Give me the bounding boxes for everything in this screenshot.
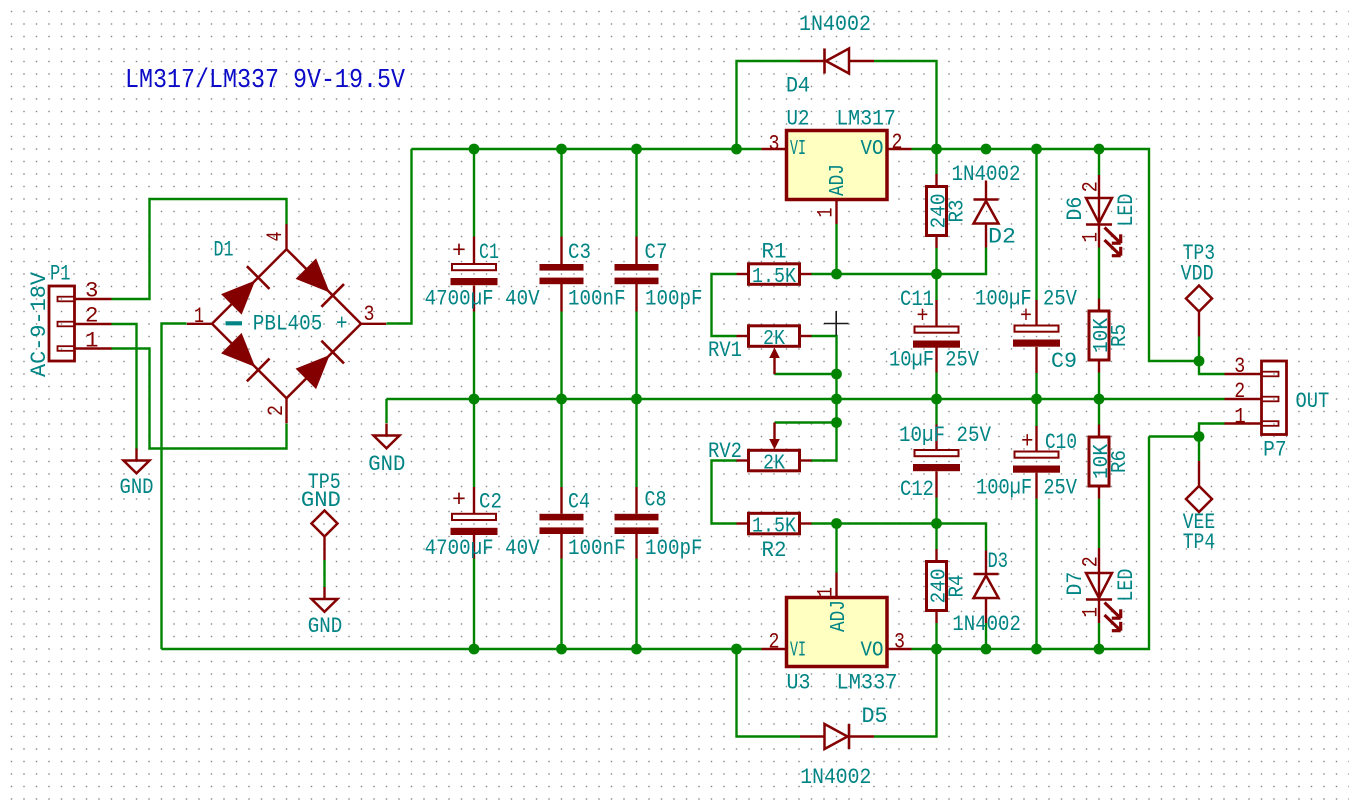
svg-text:VDD: VDD [1181, 261, 1214, 287]
capacitor C1 [452, 264, 496, 270]
junctions ADJ net R1 line [831, 269, 842, 280]
svg-text:C2: C2 [479, 489, 502, 515]
svg-text:VO: VO [861, 640, 884, 663]
svg-text:2: 2 [1234, 378, 1245, 404]
svg-text:PBL405: PBL405 [253, 311, 322, 337]
svg-text:1: 1 [1234, 404, 1246, 430]
svg-text:OUT: OUT [1296, 388, 1330, 414]
svg-text:C8: C8 [645, 487, 667, 513]
wire C1 column [473, 149, 475, 237]
svg-text:LED: LED [1113, 569, 1139, 602]
wire C2 column [473, 399, 475, 487]
crosshair marker [824, 323, 849, 325]
capacitor C7 [615, 264, 659, 271]
wire C9 top [1035, 149, 1037, 300]
svg-text:R6: R6 [1109, 450, 1132, 473]
junction RV2 wiper [831, 417, 842, 428]
svg-text:1: 1 [194, 303, 204, 329]
wire R4 bottom [935, 623, 937, 649]
capacitor C12 10uF [915, 450, 959, 456]
junctions mid rail [469, 394, 480, 405]
wire bridge minus to bottom bus [162, 324, 187, 650]
svg-text:1: 1 [85, 328, 99, 354]
wire C10 top [1035, 399, 1037, 426]
wire bridge plus to top bus [387, 149, 412, 324]
svg-text:D3: D3 [988, 548, 1009, 574]
svg-text:D7: D7 [1062, 572, 1088, 596]
ground P1 pin2 [135, 449, 137, 461]
svg-text:1N4002: 1N4002 [952, 611, 1021, 637]
svg-text:RV2: RV2 [708, 438, 742, 464]
wire U3 ADJ up [835, 524, 837, 573]
svg-text:D6: D6 [1062, 197, 1088, 221]
wire D5 loop left [737, 649, 801, 737]
svg-text:R4: R4 [947, 575, 970, 598]
junction TP4 node [1194, 431, 1205, 442]
wire P1.1 to bridge bottom [112, 349, 287, 449]
wire R1 output / ADJ net [811, 248, 986, 275]
svg-text:4700µF 40V: 4700µF 40V [425, 535, 540, 561]
svg-text:TP4: TP4 [1183, 529, 1216, 555]
svg-text:4: 4 [262, 232, 288, 242]
svg-text:GND: GND [301, 487, 341, 513]
resistor R1 1.5K [737, 273, 749, 275]
testpoint TP3 VDD [1186, 286, 1212, 312]
svg-text:U2: U2 [787, 106, 810, 132]
diode D2 1N4002 [985, 181, 987, 200]
svg-text:10µF 25V: 10µF 25V [889, 347, 979, 373]
wire D7 bottom [1098, 623, 1100, 649]
wire D6 to R5 [1098, 248, 1100, 299]
wire U2 ADJ down [835, 224, 837, 274]
wire C11 bottom [935, 373, 937, 400]
ground under TP5 [323, 587, 325, 599]
svg-text:2: 2 [769, 629, 780, 655]
resistor R5 10K [1098, 299, 1100, 312]
svg-text:100µF 25V: 100µF 25V [976, 475, 1077, 501]
svg-text:GND: GND [308, 613, 343, 639]
svg-text:1N4002: 1N4002 [799, 11, 871, 37]
svg-text:1: 1 [1078, 607, 1104, 618]
svg-text:GND: GND [368, 451, 405, 477]
svg-text:+: + [917, 303, 929, 329]
svg-text:C4: C4 [568, 489, 590, 515]
svg-text:2: 2 [1078, 181, 1104, 192]
svg-text:3: 3 [364, 301, 375, 327]
testpoint TP5 GND [312, 511, 338, 537]
wire R1 left loop to RV1 [712, 274, 737, 336]
svg-text:1.5K: 1.5K [752, 516, 796, 539]
capacitor C11 10uF [915, 327, 959, 333]
svg-text:+: + [1021, 429, 1034, 455]
svg-text:3: 3 [894, 629, 905, 655]
svg-text:C3: C3 [568, 239, 591, 265]
svg-text:C12: C12 [900, 476, 934, 502]
capacitor C3 [540, 264, 584, 271]
LED D7 [1098, 548, 1100, 573]
wire C4 column [560, 399, 562, 487]
wire R6 top [1098, 399, 1100, 425]
ground mid rail [385, 424, 387, 436]
wire C12 top [935, 399, 937, 425]
svg-text:D2: D2 [988, 224, 1016, 250]
svg-text:R3: R3 [947, 200, 970, 223]
svg-text:GND: GND [120, 474, 154, 500]
svg-text:ADJ: ADJ [828, 600, 851, 632]
wire TP3 stub [1198, 337, 1200, 362]
svg-text:2: 2 [85, 303, 99, 329]
svg-text:100pF: 100pF [645, 286, 703, 312]
svg-text:ADJ: ADJ [827, 164, 850, 196]
wire C3 column [560, 149, 562, 237]
resistor R3 240 [935, 174, 937, 187]
wire C12 bottom [935, 498, 937, 524]
svg-text:LED: LED [1113, 194, 1139, 227]
wire R5 bottom [1098, 373, 1100, 400]
svg-text:100nF: 100nF [568, 535, 626, 561]
svg-text:2: 2 [1078, 556, 1104, 567]
connector P7 OUT [1262, 361, 1287, 435]
wire D6 R5 column top [1098, 149, 1100, 175]
svg-text:+: + [452, 238, 466, 264]
svg-text:100nF: 100nF [568, 286, 626, 312]
wire C11 top [935, 274, 937, 300]
svg-text:1N4002: 1N4002 [952, 161, 1021, 187]
capacitor C8 [615, 514, 659, 521]
diode D4 1N4002 [800, 60, 825, 62]
wire R3 top [935, 149, 937, 175]
svg-text:2: 2 [892, 129, 903, 155]
svg-text:+: + [336, 311, 348, 337]
svg-text:2: 2 [263, 405, 289, 416]
svg-text:C10: C10 [1045, 429, 1077, 455]
svg-text:3: 3 [85, 278, 99, 304]
wire U3 VO rail [912, 437, 1150, 650]
svg-text:LM317: LM317 [836, 106, 896, 132]
wire bottom bus VEE [162, 648, 762, 650]
svg-text:2K: 2K [763, 328, 785, 351]
svg-text:VI: VI [790, 138, 806, 161]
wire RV1 wiper [775, 373, 837, 375]
wire C9 bottom [1035, 373, 1037, 399]
regulator U3 LM337 [787, 598, 888, 667]
svg-text:1: 1 [813, 587, 839, 597]
wire P1.3 to bridge top [112, 199, 287, 299]
wire C7 column [635, 149, 637, 237]
testpoint TP4 VEE [1186, 486, 1212, 512]
svg-text:U3: U3 [787, 670, 811, 696]
potentiometer RV1 2K [737, 335, 749, 337]
svg-text:D5: D5 [862, 703, 888, 729]
svg-text:1: 1 [813, 208, 839, 218]
wire mid rail GND-OUT [387, 398, 1225, 400]
svg-text:1N4002: 1N4002 [800, 764, 871, 790]
junctions R2 line [831, 518, 842, 529]
svg-text:VI: VI [790, 640, 806, 663]
resistor R6 10K [1098, 425, 1100, 438]
svg-text:P7: P7 [1263, 437, 1287, 463]
junctions top bus [469, 144, 480, 155]
svg-text:D4: D4 [786, 73, 810, 99]
wire D3 bottom [985, 623, 987, 649]
resistor R2 1.5K [737, 522, 749, 524]
resistor R4 240 [935, 549, 937, 562]
svg-text:RV1: RV1 [708, 337, 742, 363]
wire divider column to RV2 right [811, 399, 837, 461]
wire D4 loop left [737, 61, 801, 149]
svg-text:AC-9-18V: AC-9-18V [26, 272, 52, 377]
wire top bus VCC [412, 148, 762, 150]
wire RV2 wiper [775, 421, 837, 423]
junction TP3 node [1194, 356, 1205, 367]
junction RV1 wiper [831, 369, 842, 380]
svg-text:VO: VO [861, 138, 884, 161]
svg-text:C9: C9 [1051, 348, 1077, 374]
diode D5 1N4002 [800, 735, 825, 737]
junctions VO rail [931, 144, 942, 155]
capacitor C10 100uF [1015, 452, 1059, 458]
svg-text:LM317/LM337 9V-19.5V: LM317/LM337 9V-19.5V [125, 65, 405, 95]
regulator U2 LM317 [787, 131, 888, 200]
capacitor C4 [540, 514, 584, 521]
wire R4 top [935, 524, 937, 550]
LED D6 [1098, 175, 1100, 198]
wire RV1 right to divider column [811, 336, 837, 399]
svg-text:R2: R2 [762, 537, 787, 563]
svg-text:2K: 2K [763, 453, 785, 476]
svg-text:R1: R1 [762, 239, 787, 265]
wire C10 bottom [1035, 499, 1037, 650]
bridge pins [187, 323, 212, 325]
svg-text:4700µF 40V: 4700µF 40V [425, 286, 540, 312]
junctions bottom bus [469, 644, 480, 655]
wire C8 column [635, 399, 637, 487]
svg-text:C1: C1 [479, 239, 499, 265]
svg-text:LM337: LM337 [837, 670, 898, 696]
wire RV2 left loop to R2 [712, 461, 737, 524]
svg-text:R5: R5 [1109, 324, 1132, 347]
svg-text:P1: P1 [50, 261, 71, 287]
svg-text:1: 1 [1078, 232, 1104, 243]
potentiometer RV2 2K [737, 459, 749, 461]
wire GND stub mid rail [385, 399, 387, 423]
svg-text:100pF: 100pF [645, 535, 703, 561]
bridge rectifier D1 [212, 249, 287, 324]
wire TP4 stub [1198, 437, 1200, 462]
wire D5 loop right [874, 649, 937, 737]
diode D3 1N4002 [985, 551, 987, 575]
wire P1.2 to GND [112, 324, 137, 450]
wire R2 output net [811, 524, 986, 551]
wire R3 bottom to ADJ net [935, 248, 937, 274]
wire D4 loop right [874, 61, 937, 149]
wire VEE to P7.1 [1149, 424, 1225, 437]
wire U2 VO rail [912, 149, 1225, 374]
connector P1 [49, 286, 75, 361]
svg-text:D1: D1 [214, 237, 234, 263]
svg-text:C7: C7 [645, 239, 668, 265]
svg-text:1.5K: 1.5K [752, 266, 796, 289]
wire TP5 to GND [323, 560, 325, 587]
capacitor C2 [452, 514, 496, 520]
svg-text:3: 3 [1234, 353, 1245, 379]
svg-text:+: + [452, 487, 466, 513]
svg-text:10µF 25V: 10µF 25V [899, 422, 991, 448]
wire R6 to D7 [1098, 499, 1100, 549]
svg-text:+: + [1020, 303, 1032, 329]
capacitor C9 100uF [1015, 326, 1059, 332]
svg-text:3: 3 [769, 131, 780, 157]
